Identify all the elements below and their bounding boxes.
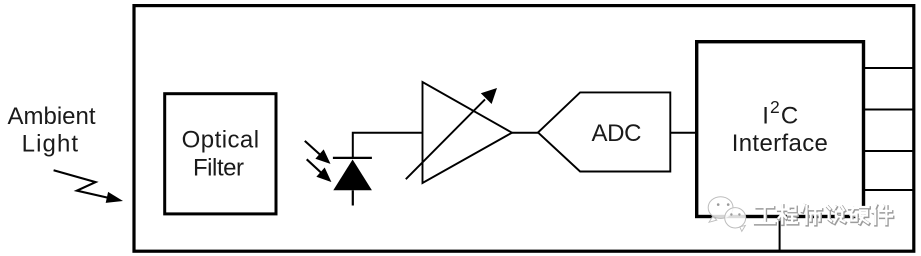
svg-text:I2C: I2C bbox=[762, 97, 799, 130]
svg-text:Light: Light bbox=[22, 130, 80, 157]
svg-text:Filter: Filter bbox=[193, 154, 244, 181]
svg-text:Interface: Interface bbox=[732, 130, 829, 157]
svg-text:ADC: ADC bbox=[592, 120, 642, 147]
svg-text:Optical: Optical bbox=[182, 127, 260, 154]
svg-text:Ambient: Ambient bbox=[7, 103, 95, 130]
